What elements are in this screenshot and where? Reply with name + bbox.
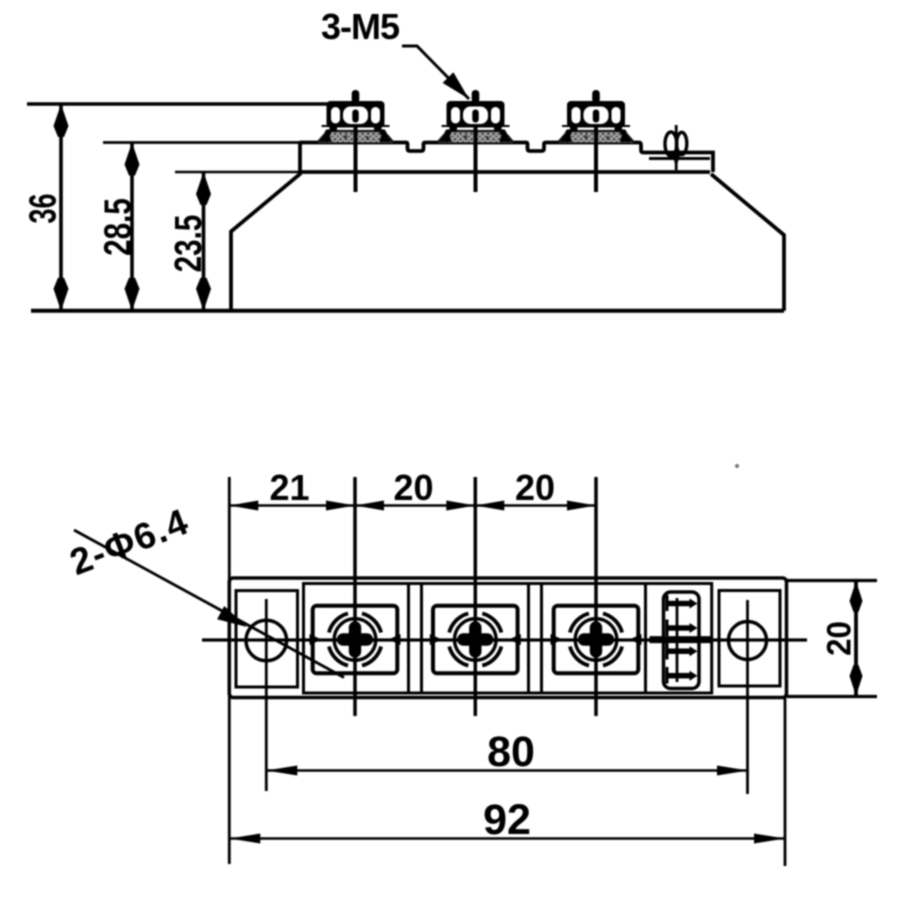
svg-text:36: 36 bbox=[21, 194, 64, 224]
svg-text:3-M5: 3-M5 bbox=[321, 6, 400, 47]
svg-text:20: 20 bbox=[515, 467, 555, 508]
svg-text:92: 92 bbox=[483, 796, 531, 844]
svg-text:20: 20 bbox=[819, 621, 858, 656]
svg-text:80: 80 bbox=[487, 728, 535, 776]
svg-text:20: 20 bbox=[393, 467, 433, 508]
svg-text:28.5: 28.5 bbox=[97, 198, 139, 256]
svg-text:21: 21 bbox=[269, 467, 309, 508]
svg-text:23.5: 23.5 bbox=[168, 215, 210, 273]
